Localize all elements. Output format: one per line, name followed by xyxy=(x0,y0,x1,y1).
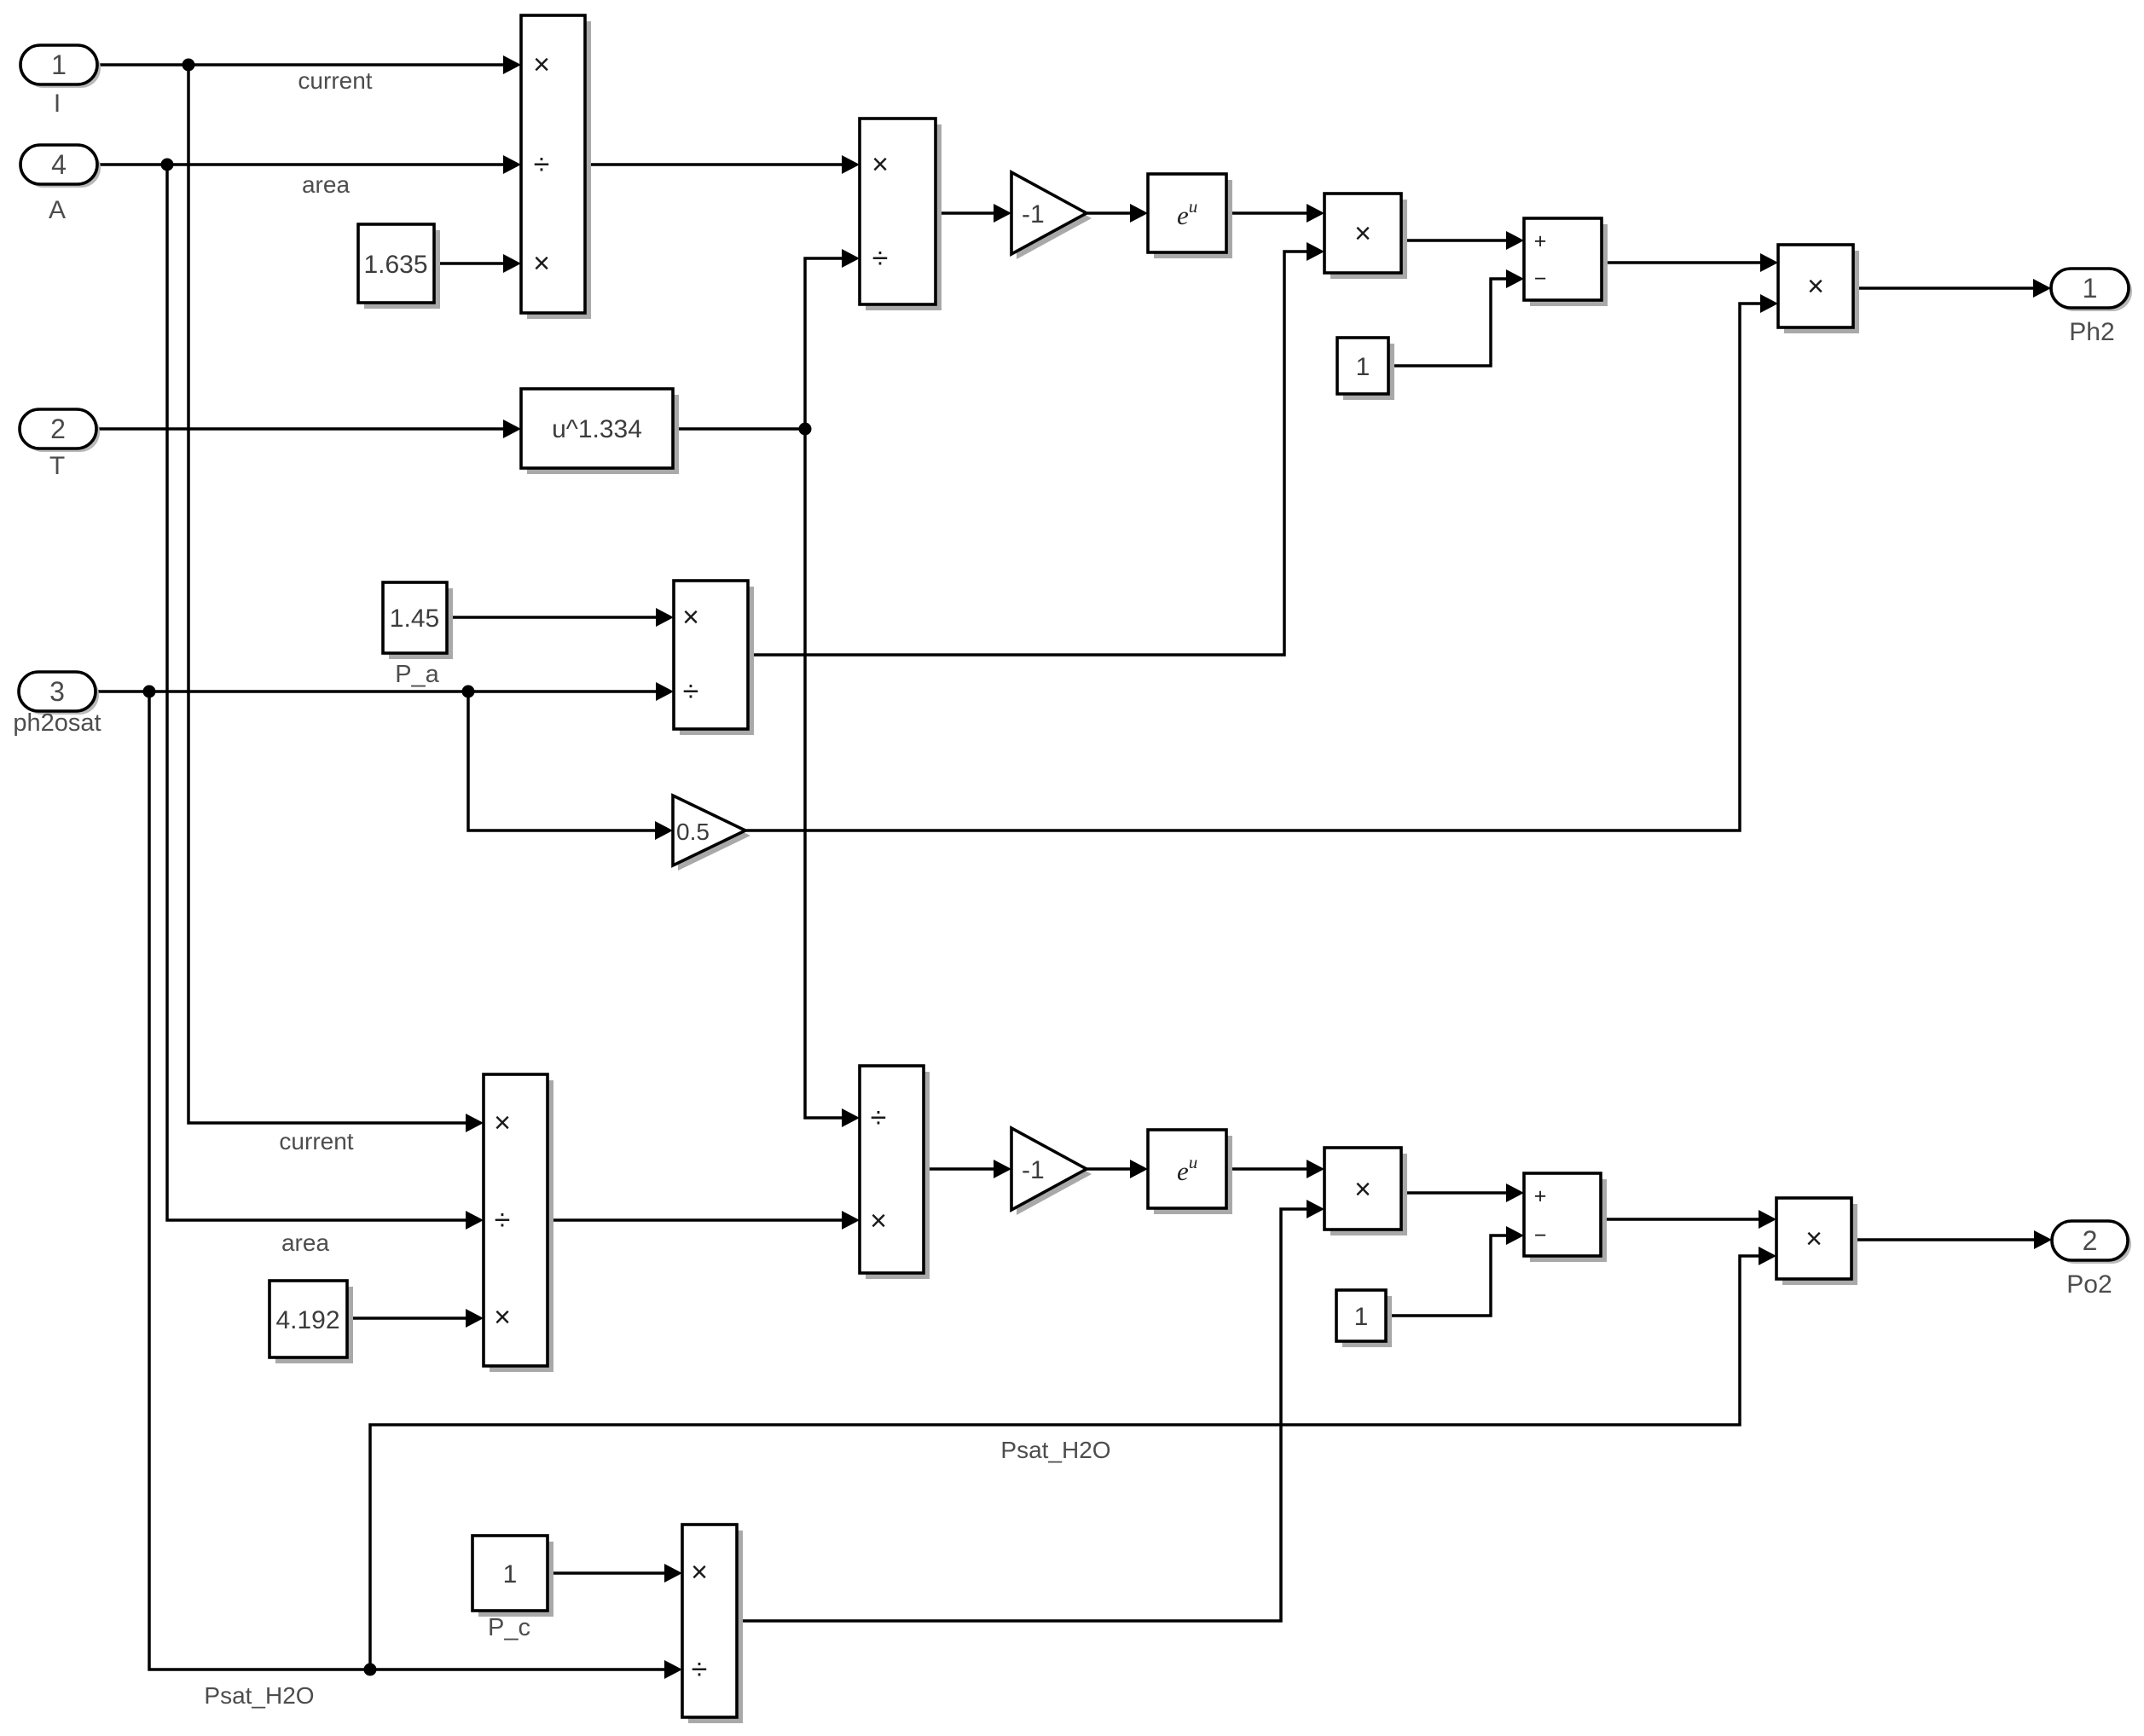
svg-text:1.45: 1.45 xyxy=(390,605,439,633)
svg-text:4: 4 xyxy=(51,149,67,180)
constant 1 (Po2) xyxy=(1336,1290,1392,1347)
node junction Psat_H2O xyxy=(364,1664,377,1676)
wire Gain -1 to e^u (O2) xyxy=(1086,1160,1148,1178)
wire e^u to Product (O2) xyxy=(1226,1160,1324,1178)
inport 2 T xyxy=(20,409,100,452)
wire I to Product (current, top) xyxy=(96,55,521,74)
sum block (1/x - 1) Po2 xyxy=(1524,1173,1607,1262)
svg-text:Ph2: Ph2 xyxy=(2069,318,2114,346)
svg-text:×: × xyxy=(1354,217,1371,250)
constant 1.635 xyxy=(358,224,440,309)
wire Constant 1.45 to Divide P_a xyxy=(447,608,674,627)
gain 0.5 xyxy=(673,796,750,871)
wire Divide to Gain -1 xyxy=(936,204,1011,223)
math function e^u (O2) xyxy=(1148,1130,1232,1214)
wire Product to Sum (O2) xyxy=(1401,1183,1524,1202)
outport 1 Ph2 xyxy=(2051,269,2132,311)
product block current*area*1.635 (H2) xyxy=(521,15,591,319)
svg-text:Po2: Po2 xyxy=(2066,1270,2112,1299)
svg-text:+: + xyxy=(1534,229,1547,253)
wire I branch down to Product2 current input xyxy=(188,65,484,1132)
svg-text:area: area xyxy=(302,171,350,198)
node junction A xyxy=(161,159,174,171)
svg-text:area: area xyxy=(281,1230,329,1256)
svg-text:×: × xyxy=(1807,270,1824,303)
wire A to Product (area, top) xyxy=(96,155,521,174)
wire ph2osat down to Gain 0.5 xyxy=(468,692,673,840)
svg-text:×: × xyxy=(533,49,550,81)
svg-text:P_c: P_c xyxy=(488,1614,530,1641)
divide block P_c/Psat_H2O xyxy=(682,1525,743,1723)
constant 1.45 P_a xyxy=(383,582,453,659)
divide block 1.45/ph2osat P_a xyxy=(674,581,754,735)
outport 2 Po2 xyxy=(2052,1221,2131,1264)
svg-text:−: − xyxy=(1534,1224,1547,1247)
svg-text:P_a: P_a xyxy=(395,661,439,688)
wire e^u to Product xyxy=(1226,204,1324,223)
svg-text:u^1.334: u^1.334 xyxy=(552,415,642,443)
svg-text:1: 1 xyxy=(51,49,67,80)
svg-text:3: 3 xyxy=(49,676,65,707)
svg-text:+: + xyxy=(1534,1184,1547,1208)
svg-text:÷: ÷ xyxy=(495,1204,511,1236)
math function e^u (H2) xyxy=(1148,174,1232,258)
svg-text:Psat_H2O: Psat_H2O xyxy=(204,1682,314,1709)
product final Po2 xyxy=(1776,1198,1857,1285)
svg-text:current: current xyxy=(298,67,372,94)
product block current*area*4.192 (O2) xyxy=(484,1074,553,1372)
svg-text:ph2osat: ph2osat xyxy=(13,709,101,737)
svg-text:÷: ÷ xyxy=(692,1653,708,1686)
wire Constant P_c to Divide xyxy=(548,1564,682,1583)
svg-text:×: × xyxy=(691,1556,708,1588)
wire Product Po2 to Outport xyxy=(1851,1230,2052,1249)
svg-text:2: 2 xyxy=(50,414,66,444)
svg-text:÷: ÷ xyxy=(871,1102,887,1134)
svg-text:×: × xyxy=(494,1107,511,1139)
sum block (1/x - 1) Ph2 xyxy=(1524,218,1608,306)
node junction ph2osat main xyxy=(143,686,156,698)
svg-text:÷: ÷ xyxy=(534,148,550,181)
svg-text:×: × xyxy=(682,601,699,634)
wire T^1.334 down to Divide2 input xyxy=(805,429,860,1127)
node junction T^1.334 xyxy=(799,423,812,436)
wire Product to Sum xyxy=(1401,231,1524,250)
svg-text:×: × xyxy=(870,1205,887,1237)
inport 1 I xyxy=(20,45,101,88)
node junction ph2osat to gain xyxy=(462,686,475,698)
wire Constant 4.192 to Product2 xyxy=(347,1309,484,1328)
product e^u * P_a (H2) xyxy=(1324,194,1407,279)
svg-text:A: A xyxy=(49,196,66,224)
wire ph2osat down to Psat_H2O line xyxy=(149,692,682,1679)
product final Ph2 xyxy=(1778,245,1859,333)
constant 1 (Ph2) xyxy=(1337,338,1394,400)
wire Gain -1 to Math Function e^u xyxy=(1086,204,1148,223)
svg-text:×: × xyxy=(1805,1223,1822,1255)
wire Product Ph2 to Outport xyxy=(1853,279,2051,298)
svg-text:-1: -1 xyxy=(1022,1156,1045,1184)
svg-text:×: × xyxy=(533,247,550,280)
svg-text:×: × xyxy=(494,1301,511,1334)
svg-text:4.192: 4.192 xyxy=(275,1306,339,1334)
svg-text:T: T xyxy=(49,452,65,480)
svg-text:Psat_H2O: Psat_H2O xyxy=(1000,1437,1110,1463)
math function u^1.334 xyxy=(521,389,679,474)
svg-text:0.5: 0.5 xyxy=(676,819,710,845)
svg-text:2: 2 xyxy=(2083,1225,2098,1256)
constant 1 P_c xyxy=(472,1536,553,1617)
gain -1 (H2) xyxy=(1011,172,1092,259)
wire Divide P_c to Product (O2) xyxy=(737,1200,1324,1621)
gain -1 (O2) xyxy=(1011,1128,1092,1215)
svg-text:÷: ÷ xyxy=(872,242,889,275)
wire ph2osat to Divide P_a xyxy=(96,682,674,701)
wire Constant 1.635 to Product xyxy=(434,254,521,273)
wire T^1.334 up to Divide input xyxy=(805,249,860,429)
wire Gain 0.5 to Product Ph2 xyxy=(745,294,1778,830)
svg-text:1: 1 xyxy=(1354,1303,1369,1331)
wire Sum to Product Po2 xyxy=(1601,1210,1776,1229)
svg-text:×: × xyxy=(1354,1173,1371,1206)
inport 3 ph2osat xyxy=(19,672,99,715)
svg-text:1: 1 xyxy=(2083,273,2098,304)
svg-text:current: current xyxy=(279,1128,353,1154)
wire Constant 1 to Sum minus (O2) xyxy=(1386,1226,1524,1316)
divide block (H2 partial) xyxy=(860,119,942,310)
svg-text:−: − xyxy=(1534,267,1547,291)
svg-text:1: 1 xyxy=(1356,353,1370,381)
node junction I xyxy=(183,59,195,72)
svg-text:×: × xyxy=(872,148,889,181)
constant 4.192 xyxy=(269,1281,353,1363)
svg-text:÷: ÷ xyxy=(683,675,699,708)
wire Product to Divide (Ph2 path) xyxy=(585,155,860,174)
svg-text:-1: -1 xyxy=(1022,200,1045,229)
wire T to Math Function u^1.334 xyxy=(96,420,521,438)
inport 4 A xyxy=(20,145,101,188)
wire Divide2 to Gain -1 (O2) xyxy=(924,1160,1011,1178)
svg-text:I: I xyxy=(54,90,61,118)
wire Sum to Product Ph2 xyxy=(1602,253,1778,272)
divide block (O2 partial) xyxy=(860,1066,930,1279)
wire A branch down to Product2 area input xyxy=(167,165,484,1230)
svg-text:1.635: 1.635 xyxy=(363,251,427,279)
svg-text:1: 1 xyxy=(503,1560,518,1588)
wire Divide P_a to Product exp xyxy=(748,242,1324,655)
product e^u * P_c (O2) xyxy=(1324,1148,1407,1235)
wire Product2 to Divide2 xyxy=(548,1211,860,1230)
wire Psat_H2O up and across to Product Po2 xyxy=(370,1247,1776,1669)
wire Constant 1 to Sum minus xyxy=(1388,269,1524,366)
wire u^1.334 output xyxy=(673,427,805,431)
